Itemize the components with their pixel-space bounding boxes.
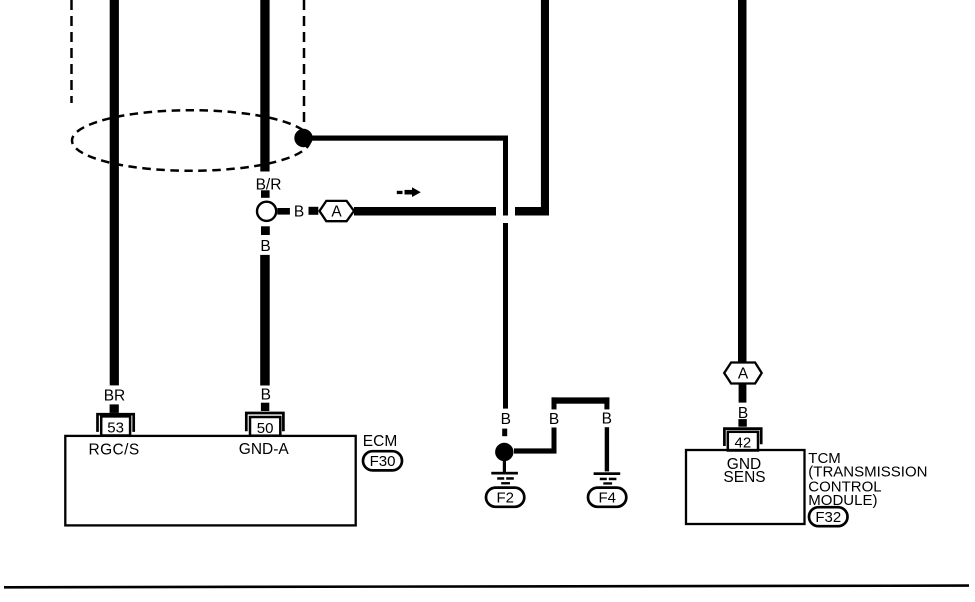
svg-text:GND-A: GND-A	[239, 441, 290, 458]
svg-text:ECM: ECM	[363, 433, 397, 450]
connector tail dash right of circle	[277, 208, 290, 215]
wire dash below B/R label	[261, 190, 270, 198]
wire dash above pin 53	[110, 404, 119, 413]
svg-text:53: 53	[107, 420, 124, 437]
wire dash below circle	[261, 226, 270, 235]
svg-text:B: B	[602, 411, 612, 428]
wire B/R vertical upper	[260, 0, 269, 172]
svg-text:SENS: SENS	[723, 469, 765, 486]
connector hexagon A right	[724, 363, 762, 384]
junction dot F2	[495, 443, 513, 461]
wire thick horizontal from hexagon right part	[515, 207, 549, 216]
svg-text:B: B	[260, 238, 270, 255]
wire to F4 ground	[605, 427, 609, 471]
shield ellipse (dashed)	[72, 110, 310, 171]
svg-text:B: B	[501, 411, 511, 428]
connector oval F32	[809, 507, 848, 526]
wire left leg vertical lower	[552, 428, 557, 454]
wire left leg stub	[552, 397, 557, 409]
ground symbol F4	[594, 472, 621, 484]
wire dash above pin 42	[738, 419, 746, 427]
wire right leg stub	[604, 397, 609, 409]
svg-text:A: A	[738, 365, 749, 382]
connector oval F2	[486, 488, 524, 507]
pin 50 box	[250, 417, 280, 436]
svg-text:F30: F30	[370, 453, 396, 470]
wire TCM vertical	[738, 0, 747, 363]
connector hexagon A left	[320, 201, 355, 221]
wire thin vertical to F2 upper segment	[503, 136, 508, 216]
svg-text:A: A	[331, 204, 342, 221]
wire B vertical to ECM	[260, 255, 270, 386]
svg-text:F2: F2	[496, 490, 514, 507]
wire below hexagon	[739, 384, 747, 403]
pin 50 bracket	[246, 413, 283, 431]
wire BR vertical	[110, 0, 119, 385]
svg-text:F4: F4	[598, 490, 616, 507]
wire top bar	[552, 397, 610, 403]
wire dash above pin 50	[261, 403, 269, 411]
svg-text:B: B	[261, 387, 271, 404]
pin 42 bracket	[724, 429, 761, 446]
wire thick horizontal from hexagon left part	[354, 207, 496, 216]
pin 53 bracket	[98, 414, 134, 432]
svg-text:RGC/S: RGC/S	[89, 442, 140, 459]
flow arrow	[397, 187, 421, 197]
wire dash before hexagon	[309, 207, 319, 215]
connector oval F4	[588, 488, 626, 507]
wire dash above F2 dot	[502, 429, 507, 437]
svg-text:50: 50	[257, 420, 274, 437]
connector open circle	[257, 202, 276, 221]
pin 42 box	[728, 432, 758, 451]
svg-text:B: B	[549, 411, 559, 428]
junction dot (splice on shield)	[294, 129, 312, 147]
connector oval F30	[363, 451, 402, 470]
shield right dashed line	[303, 0, 306, 128]
ECM box	[65, 436, 355, 526]
TCM box	[686, 450, 805, 524]
wire thin vertical to F2 lower segment	[503, 223, 508, 409]
svg-text:BR: BR	[104, 387, 126, 404]
svg-text:F32: F32	[815, 509, 841, 526]
wire thin horizontal from splice	[311, 136, 508, 141]
wire thick vertical at x545	[541, 0, 549, 216]
shield left dashed line	[70, 0, 73, 103]
pin 53 box	[101, 416, 130, 435]
ground symbol F2	[491, 459, 518, 484]
svg-text:B: B	[294, 204, 304, 221]
bottom rule	[4, 586, 969, 588]
wire from F2 dot going right	[514, 448, 557, 453]
